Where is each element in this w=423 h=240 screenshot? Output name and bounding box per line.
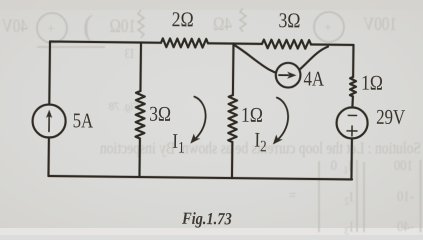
resistor R 1ohm right [350,77,356,97]
svg-text:1Ω: 1Ω [361,72,383,95]
bleed source circle + [37,13,67,43]
svg-text:+: + [324,21,332,36]
wire bottom [48,176,351,179]
svg-text:I3: I3 [125,46,134,61]
wire right branch lower lead [350,138,353,179]
wire left branch upper [48,42,51,105]
bleed bracket lines [319,160,421,232]
svg-text:29V: 29V [376,106,405,130]
mesh arrow I2 [276,98,288,141]
wire 3ohm branch upper lead [139,43,142,91]
svg-text:10Ω: 10Ω [110,15,136,36]
svg-text:5A: 5A [73,110,94,133]
svg-text:2Ω: 2Ω [172,9,194,32]
svg-text:100: 100 [394,158,413,174]
wire bypass arc through 4A source [233,45,328,76]
mesh arrow I1 [194,97,206,140]
svg-text:Fig.1.73: Fig.1.73 [181,210,232,229]
wire right branch upper lead [352,45,355,77]
svg-text:40V: 40V [1,15,28,36]
svg-text:-10: -10 [397,189,414,205]
voltage source V 29V [336,107,367,138]
current source I 5A [32,104,65,137]
plus sign of 29V [347,126,357,136]
resistor R 2ohm [161,38,208,47]
resistor R 3ohm middle [136,91,145,139]
svg-text:4A: 4A [303,68,324,91]
wire 1ohm mid branch upper lead [232,44,235,95]
svg-text:=: = [289,188,296,204]
svg-text:1Ω: 1Ω [241,104,263,127]
wire left branch lower [47,137,50,175]
svg-text:(: ( [83,8,93,43]
minus sign of 29V [348,114,356,116]
svg-text:0: 0 [331,158,337,174]
bleed wire [37,46,105,48]
wire 1ohm mid branch lower lead [231,142,234,178]
svg-text:100V: 100V [363,13,397,34]
wire top-middle segment [208,42,262,45]
circuit (scan slightly rotated) [32,37,369,180]
bleed source circle + right [314,12,344,42]
wire between 1ohm right and 29V source [351,96,354,107]
arrow of 4A source [279,74,288,76]
svg-text:4Ω: 4Ω [213,13,232,34]
svg-text:3Ω: 3Ω [149,103,171,126]
wire 3ohm branch lower lead [138,139,141,177]
svg-text:3Ω: 3Ω [278,10,300,33]
wire top-right segment [311,43,353,46]
arrow of 5A source [48,115,50,131]
bleed zigzag right [240,8,246,32]
svg-text:-40: -40 [397,219,414,235]
bleed zigzag [138,10,144,38]
resistor R 3ohm top [262,40,311,49]
svg-text:+: + [47,22,55,37]
resistor R 1ohm middle [228,95,237,142]
current source I 4A [276,63,301,88]
wire top-left segment [50,42,161,43]
